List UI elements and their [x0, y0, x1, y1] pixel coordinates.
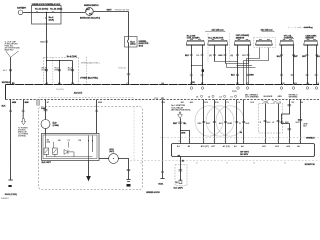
- eld ground wire: [88, 161, 90, 177]
- tdc route jog left 2: [244, 48, 269, 85]
- svg-text:OTHER (BLK/YEL): OTHER (BLK/YEL): [80, 77, 98, 79]
- svg-text:t3: t3: [226, 162, 228, 165]
- No.2 wire connector C521: [45, 41, 48, 42]
- svg-text:t5: t5: [284, 162, 286, 165]
- inner dashed edge: [133, 107, 135, 160]
- ground wire connector: [161, 172, 164, 173]
- coil leg A: [191, 45, 193, 85]
- injector No.1: [208, 39, 228, 45]
- svg-text:GRN: GRN: [249, 75, 254, 77]
- inner dashed divider: [52, 57, 54, 84]
- svg-text:DLC (16P): DLC (16P): [174, 188, 183, 190]
- band right notes: [232, 91, 298, 98]
- last wire: [300, 100, 302, 144]
- wire through box: [32, 12, 86, 14]
- svg-text:BLK: BLK: [2, 105, 7, 107]
- lower connector row dashed: [130, 160, 319, 162]
- lower row ticks: [140, 162, 286, 165]
- svg-text:No.4 (10A): No.4 (10A): [67, 55, 77, 58]
- harness box: [5, 85, 7, 100]
- svg-text:B2: B2: [58, 140, 60, 142]
- svg-text:24.5 (25) mm: 24.5 (25) mm: [261, 29, 273, 32]
- svg-text:SENSOR: SENSOR: [305, 37, 314, 39]
- sensor CKP: [234, 39, 251, 45]
- svg-text:CVT: GRN/RED: CVT: GRN/RED: [245, 97, 259, 99]
- svg-text:ECM/PCM: ECM/PCM: [305, 164, 315, 166]
- branch pin labels: [45, 82, 75, 85]
- ckp leg connectors: [236, 54, 249, 55]
- band labels below: [12, 101, 304, 104]
- injector group dashed edges: [208, 34, 229, 63]
- cmp leg connectors: [306, 54, 319, 55]
- tdc route jog left: [247, 48, 260, 85]
- ground wire end bar: [160, 177, 164, 179]
- injector route jog 2: [226, 64, 249, 85]
- sensor CMP: [304, 39, 318, 45]
- last wire fuse bars: [298, 119, 302, 120]
- svg-text:UNDER-HOOD FUSE/RELAY BOX: UNDER-HOOD FUSE/RELAY BOX: [32, 3, 61, 6]
- sensor TDC dashed box: [254, 37, 276, 47]
- svg-text:t2: t2: [196, 162, 198, 165]
- sensor VTC: [280, 39, 294, 45]
- shield ellipse 2: [206, 106, 234, 136]
- svg-text:No.1: No.1: [3, 70, 7, 72]
- motor ground connector: [127, 170, 131, 171]
- svg-text:INJ DRV: INJ DRV: [240, 154, 249, 156]
- eld feed wire: [45, 100, 47, 120]
- injector leg connectors: [213, 54, 226, 55]
- fuse 41 symbol: [36, 11, 39, 14]
- svg-text:BLK: BLK: [185, 55, 190, 57]
- jogged wire connector: [288, 105, 292, 130]
- boxed wire labels: [239, 122, 308, 128]
- svg-text:ORN: ORN: [181, 132, 186, 134]
- ckp route jog 4: [237, 65, 253, 67]
- relay note block: [171, 105, 190, 111]
- under-dash relay dashed box: [44, 57, 79, 84]
- ELD element wires: [46, 142, 93, 157]
- eld ground: [86, 176, 91, 181]
- knock dashed box: [259, 104, 283, 134]
- svg-text:C521: C521: [40, 41, 45, 43]
- left ground wire connector: [9, 110, 12, 111]
- junction dot: [46, 12, 47, 13]
- branch wire b: [181, 131, 190, 144]
- svg-text:D4: D4: [79, 139, 81, 142]
- ECM box: [172, 144, 315, 157]
- twist marks: [262, 100, 279, 104]
- ELD unit box outer: [42, 134, 100, 161]
- svg-text:BOX: BOX: [139, 45, 144, 47]
- trapezoid base bars: [186, 44, 318, 46]
- left ground end bar: [8, 179, 12, 181]
- injector route jog 1: [215, 61, 238, 63]
- svg-text:15: 15: [208, 96, 210, 98]
- connector on wire: [127, 74, 130, 75]
- battery: [18, 7, 23, 14]
- motor to ground wire: [118, 159, 128, 180]
- svg-text:(2): (2): [231, 55, 234, 57]
- svg-text:C101: C101: [154, 98, 158, 100]
- svg-text:IGNITION SWITCH: IGNITION SWITCH: [84, 5, 99, 7]
- svg-text:COIL (COMP): COIL (COMP): [187, 37, 200, 39]
- svg-text:BLU/GRN: BLU/GRN: [264, 96, 273, 98]
- branch fuse 2: [58, 70, 61, 71]
- svg-text:GRN/BLK: GRN/BLK: [306, 138, 315, 140]
- svg-text:W: W: [230, 123, 232, 125]
- svg-text:CONTROL: CONTROL: [284, 37, 295, 39]
- svg-text:FROM IGN SW: FROM IGN SW: [115, 9, 129, 11]
- svg-text:shielding: shielding: [304, 27, 314, 29]
- svg-text:G101: G101: [158, 183, 164, 185]
- svg-text:24.5 (25) mm: 24.5 (25) mm: [212, 29, 224, 32]
- under-dash fuse box: [125, 37, 138, 48]
- option connector labels: [196, 95, 232, 98]
- junction dots: [46, 60, 47, 61]
- band pin labels above: [126, 83, 320, 85]
- svg-text:(10A): (10A): [55, 68, 60, 71]
- svg-text:W: W: [239, 123, 241, 125]
- left feed wire: [10, 57, 12, 84]
- svg-text:UNDER-HOOD: UNDER-HOOD: [146, 192, 160, 194]
- svg-text:A10 (C7): A10 (C7): [201, 145, 209, 148]
- TOPRIGHT: [185, 26, 320, 85]
- svg-text:No.42 (40A): No.42 (40A): [50, 7, 62, 10]
- vtc leg connectors: [280, 54, 295, 55]
- distribution wire: [47, 60, 73, 62]
- svg-text:B (C101): B (C101): [56, 89, 64, 91]
- svg-text:C1: C1: [68, 140, 70, 142]
- ELD sensor circle: [41, 120, 50, 129]
- ELD internal dots: [88, 140, 89, 141]
- shield ellipse 3: [216, 106, 244, 136]
- svg-text:13: 13: [230, 96, 232, 98]
- left ground wire: [10, 100, 12, 181]
- branch fuse 3: [71, 70, 74, 71]
- ignition switch: [86, 8, 94, 16]
- fuse No.2 symbol: [45, 17, 48, 20]
- boxed wire 1: [265, 104, 267, 144]
- svg-text:(C449): (C449): [53, 124, 59, 127]
- eld to box wire: [45, 129, 47, 135]
- wire 24: [243, 100, 245, 144]
- svg-text:3c: 3c: [288, 141, 290, 143]
- ECMSECTION: [130, 100, 319, 190]
- TOPSECTION: [2, 3, 149, 85]
- shielded wire 3: [225, 100, 227, 144]
- coil leg connectors 2: [190, 75, 204, 76]
- boxed wire 2: [278, 104, 280, 144]
- bracket over injector: [206, 30, 225, 33]
- svg-text:2e: 2e: [243, 141, 245, 143]
- connector row dashed: [160, 137, 319, 139]
- coil leg connectors: [190, 54, 204, 55]
- svg-text:(C6): (C6): [47, 142, 51, 144]
- splice grey box: [36, 100, 39, 106]
- wire from fuse No.2 down: [46, 24, 48, 61]
- service check wire: [180, 157, 182, 182]
- inner grey dashed line: [39, 97, 135, 99]
- to-power arrow: [21, 119, 25, 125]
- ELD unit box inner: [43, 135, 97, 159]
- arrow wire connector: [22, 110, 25, 111]
- vtc wire connectors 2: [280, 74, 317, 75]
- svg-text:WHT/RED: WHT/RED: [289, 97, 298, 99]
- svg-text:G101 (C101): G101 (C101): [5, 194, 17, 196]
- connector circles: [190, 87, 318, 90]
- svg-text:(7.5A): (7.5A): [42, 68, 47, 71]
- branch fuse labels: [42, 67, 73, 71]
- wire battery to under-hood box: [23, 12, 32, 14]
- ckp legs: [238, 45, 249, 85]
- svg-text:ELD UNIT: ELD UNIT: [42, 162, 52, 164]
- svg-text:BLK: BLK: [277, 56, 282, 58]
- ecm wire a connector: [178, 122, 182, 123]
- branch wire 1: [46, 61, 48, 85]
- svg-text:A1 (C6): A1 (C6): [223, 145, 230, 148]
- svg-text:BAT/ACC/ST+IG1 (a-W-1): BAT/ACC/ST+IG1 (a-W-1): [80, 17, 100, 20]
- box to motor wire: [99, 158, 109, 160]
- svg-text:A22 (C7): A22 (C7): [74, 92, 83, 95]
- wire fuse to band: [128, 47, 130, 84]
- shielded wire connectors: [202, 122, 238, 123]
- svg-text:(15A): (15A): [130, 43, 136, 46]
- svg-text:16: 16: [196, 96, 198, 98]
- harness box bottom dashed: [6, 99, 320, 101]
- alt model dashed wire: [86, 57, 88, 85]
- svg-text:IG1: IG1: [89, 14, 92, 16]
- svg-text:(1): (1): [209, 55, 212, 57]
- svg-text:IG1 (m): IG1 (m): [119, 68, 126, 70]
- BOTTOMLEFT: [2, 100, 161, 197]
- left fuse symbol: [9, 70, 12, 71]
- service check dashed box: [175, 165, 187, 186]
- fuse 42 symbol: [52, 11, 55, 14]
- sensor TDC bracket: [262, 30, 274, 33]
- BAND: [6, 83, 320, 104]
- shielded wire 2: [214, 100, 216, 144]
- injector route jog 3: [227, 64, 256, 68]
- left ground block: [8, 185, 11, 187]
- fuse No.9 symbol: [127, 37, 130, 48]
- svg-text:No.1 INJECTOR: No.1 INJECTOR: [208, 37, 224, 39]
- vtc legs: [282, 45, 294, 85]
- ELD element 2: [53, 148, 58, 154]
- shield ellipse 1: [195, 106, 223, 136]
- svg-text:(IN UND-FUSE BOX): (IN UND-FUSE BOX): [171, 110, 190, 112]
- shielded wire 4: [236, 100, 238, 144]
- motor ground: [126, 180, 130, 182]
- svg-text:t1: t1: [140, 162, 142, 165]
- service check connector: [179, 170, 183, 171]
- ckp wire connectors: [236, 74, 249, 75]
- coil branch wire: [192, 65, 203, 67]
- sensor TDC: [256, 39, 273, 45]
- svg-text:(ALT): (ALT): [109, 150, 114, 153]
- from-relay arrow: [178, 112, 183, 118]
- branch wire 3: [72, 61, 74, 85]
- svg-text:JPN/KQ (BLK/YEL): JPN/KQ (BLK/YEL): [81, 62, 100, 64]
- branch junction: [180, 130, 181, 131]
- ground wire left: [162, 100, 164, 179]
- svg-text:(— • —) : with: (— • —) : with: [288, 26, 302, 29]
- boxed wire connectors: [264, 120, 280, 121]
- fuse No.2 vertical wire: [46, 13, 48, 25]
- svg-text:GRN: GRN: [277, 96, 282, 98]
- svg-text:BLU: BLU: [231, 75, 236, 77]
- left note text block: [5, 41, 21, 51]
- svg-text:BLU: BLU: [317, 56, 320, 58]
- branch fuse 1: [45, 70, 48, 71]
- cmp legs: [308, 45, 317, 85]
- ignition coil No.1: [186, 39, 205, 45]
- svg-text:W: W: [272, 122, 274, 124]
- coil leg B: [202, 45, 204, 85]
- svg-text:No.41 (100A): No.41 (100A): [35, 7, 49, 10]
- svg-text:2c: 2c: [224, 141, 226, 143]
- ELD internal wires: [46, 135, 93, 161]
- svg-text:(10A): (10A): [68, 68, 73, 71]
- svg-text:(15A): (15A): [49, 19, 55, 22]
- eld pin wire D4: [96, 100, 98, 134]
- svg-text:BRN: BRN: [218, 55, 223, 57]
- ELD element 1: [44, 148, 49, 154]
- collector symbol: [6, 51, 19, 57]
- eld feed connector: [44, 110, 48, 111]
- svg-text:C101: C101: [232, 91, 237, 93]
- wire switch to corner: [94, 11, 129, 13]
- engine compartment dashed enclosure: [39, 107, 143, 190]
- jogged wire: [282, 100, 290, 144]
- coil number tag: [202, 69, 204, 72]
- wire 24 connector: [242, 122, 245, 123]
- svg-text:WHT/BLK: WHT/BLK: [2, 82, 11, 84]
- svg-text:WHT: WHT: [107, 9, 113, 11]
- shielded wire color labels: [198, 123, 233, 125]
- svg-text:SENSOR: SENSOR: [236, 37, 245, 39]
- under-hood fuse/relay box: [32, 6, 62, 25]
- vertical wire to fuse: [128, 12, 130, 37]
- option connector circles: [200, 95, 236, 97]
- ELD pin labels: [47, 139, 81, 144]
- connector row labels: [178, 141, 302, 143]
- branch wire 2: [59, 61, 61, 85]
- ecm wire a: [180, 118, 182, 143]
- svg-text:BATTERY: BATTERY: [17, 6, 27, 9]
- ECM pin labels: [177, 145, 301, 148]
- svg-text:C449: C449: [41, 107, 46, 110]
- svg-text:RED: RED: [242, 55, 247, 57]
- svg-text:03959617: 03959617: [1, 198, 9, 200]
- svg-text:12: 12: [175, 182, 177, 184]
- service check element: [179, 180, 182, 184]
- svg-text:DISTRIB.): DISTRIB.): [18, 135, 26, 137]
- motor ground block: [127, 184, 131, 187]
- ELD element 3 diode: [64, 150, 68, 155]
- shielded wire 1: [203, 100, 205, 144]
- injector legs: [215, 45, 226, 64]
- motor circle: [109, 154, 119, 164]
- arrow wire: [22, 100, 24, 119]
- to-power note block: [18, 127, 29, 137]
